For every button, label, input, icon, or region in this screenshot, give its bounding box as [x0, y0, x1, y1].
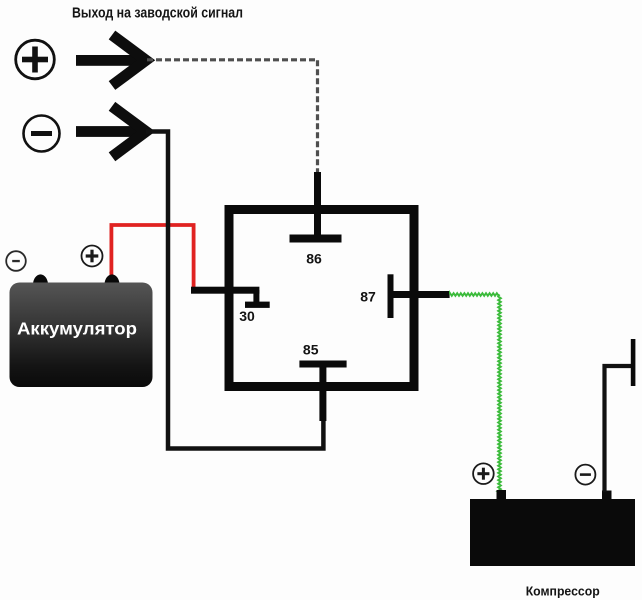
wire red: battery plus to relay pin 30: [111, 225, 193, 290]
wire green: pin 87 to compressor plus: [450, 293, 501, 491]
battery minus label: [6, 251, 26, 271]
battery plus label: [82, 246, 103, 267]
compressor plus label: [473, 463, 494, 484]
pin 30: [191, 287, 270, 308]
svg-text:Компрессор: Компрессор: [526, 584, 600, 599]
battery Аккумулятор: [10, 274, 153, 387]
arrow from minus terminal: [76, 106, 146, 157]
svg-text:30: 30: [239, 308, 255, 324]
compressor minus label: [575, 465, 595, 485]
right terminal bar: [631, 339, 636, 386]
svg-text:Аккумулятор: Аккумулятор: [17, 319, 137, 339]
compressor terminal stubs: [497, 490, 507, 501]
svg-text:Выход на заводской сигнал: Выход на заводской сигнал: [72, 6, 243, 22]
terminal symbol plus (circle +): [16, 40, 55, 79]
terminal symbol minus (circle −): [24, 116, 60, 152]
wire black: right terminal bar to compressor minus: [605, 366, 634, 492]
svg-text:85: 85: [303, 342, 319, 358]
wire dashed gray: arrow tip to relay pin 86: [147, 60, 318, 174]
svg-text:87: 87: [360, 289, 376, 305]
pin 87: [388, 274, 450, 318]
arrow from plus terminal: [76, 35, 146, 86]
svg-text:86: 86: [306, 251, 322, 267]
pin 86: [290, 172, 342, 243]
relay box: [229, 210, 414, 387]
wire black return: minus arrow to pin 85: [146, 132, 323, 449]
compressor box: [470, 499, 635, 566]
pin 85: [299, 361, 346, 422]
